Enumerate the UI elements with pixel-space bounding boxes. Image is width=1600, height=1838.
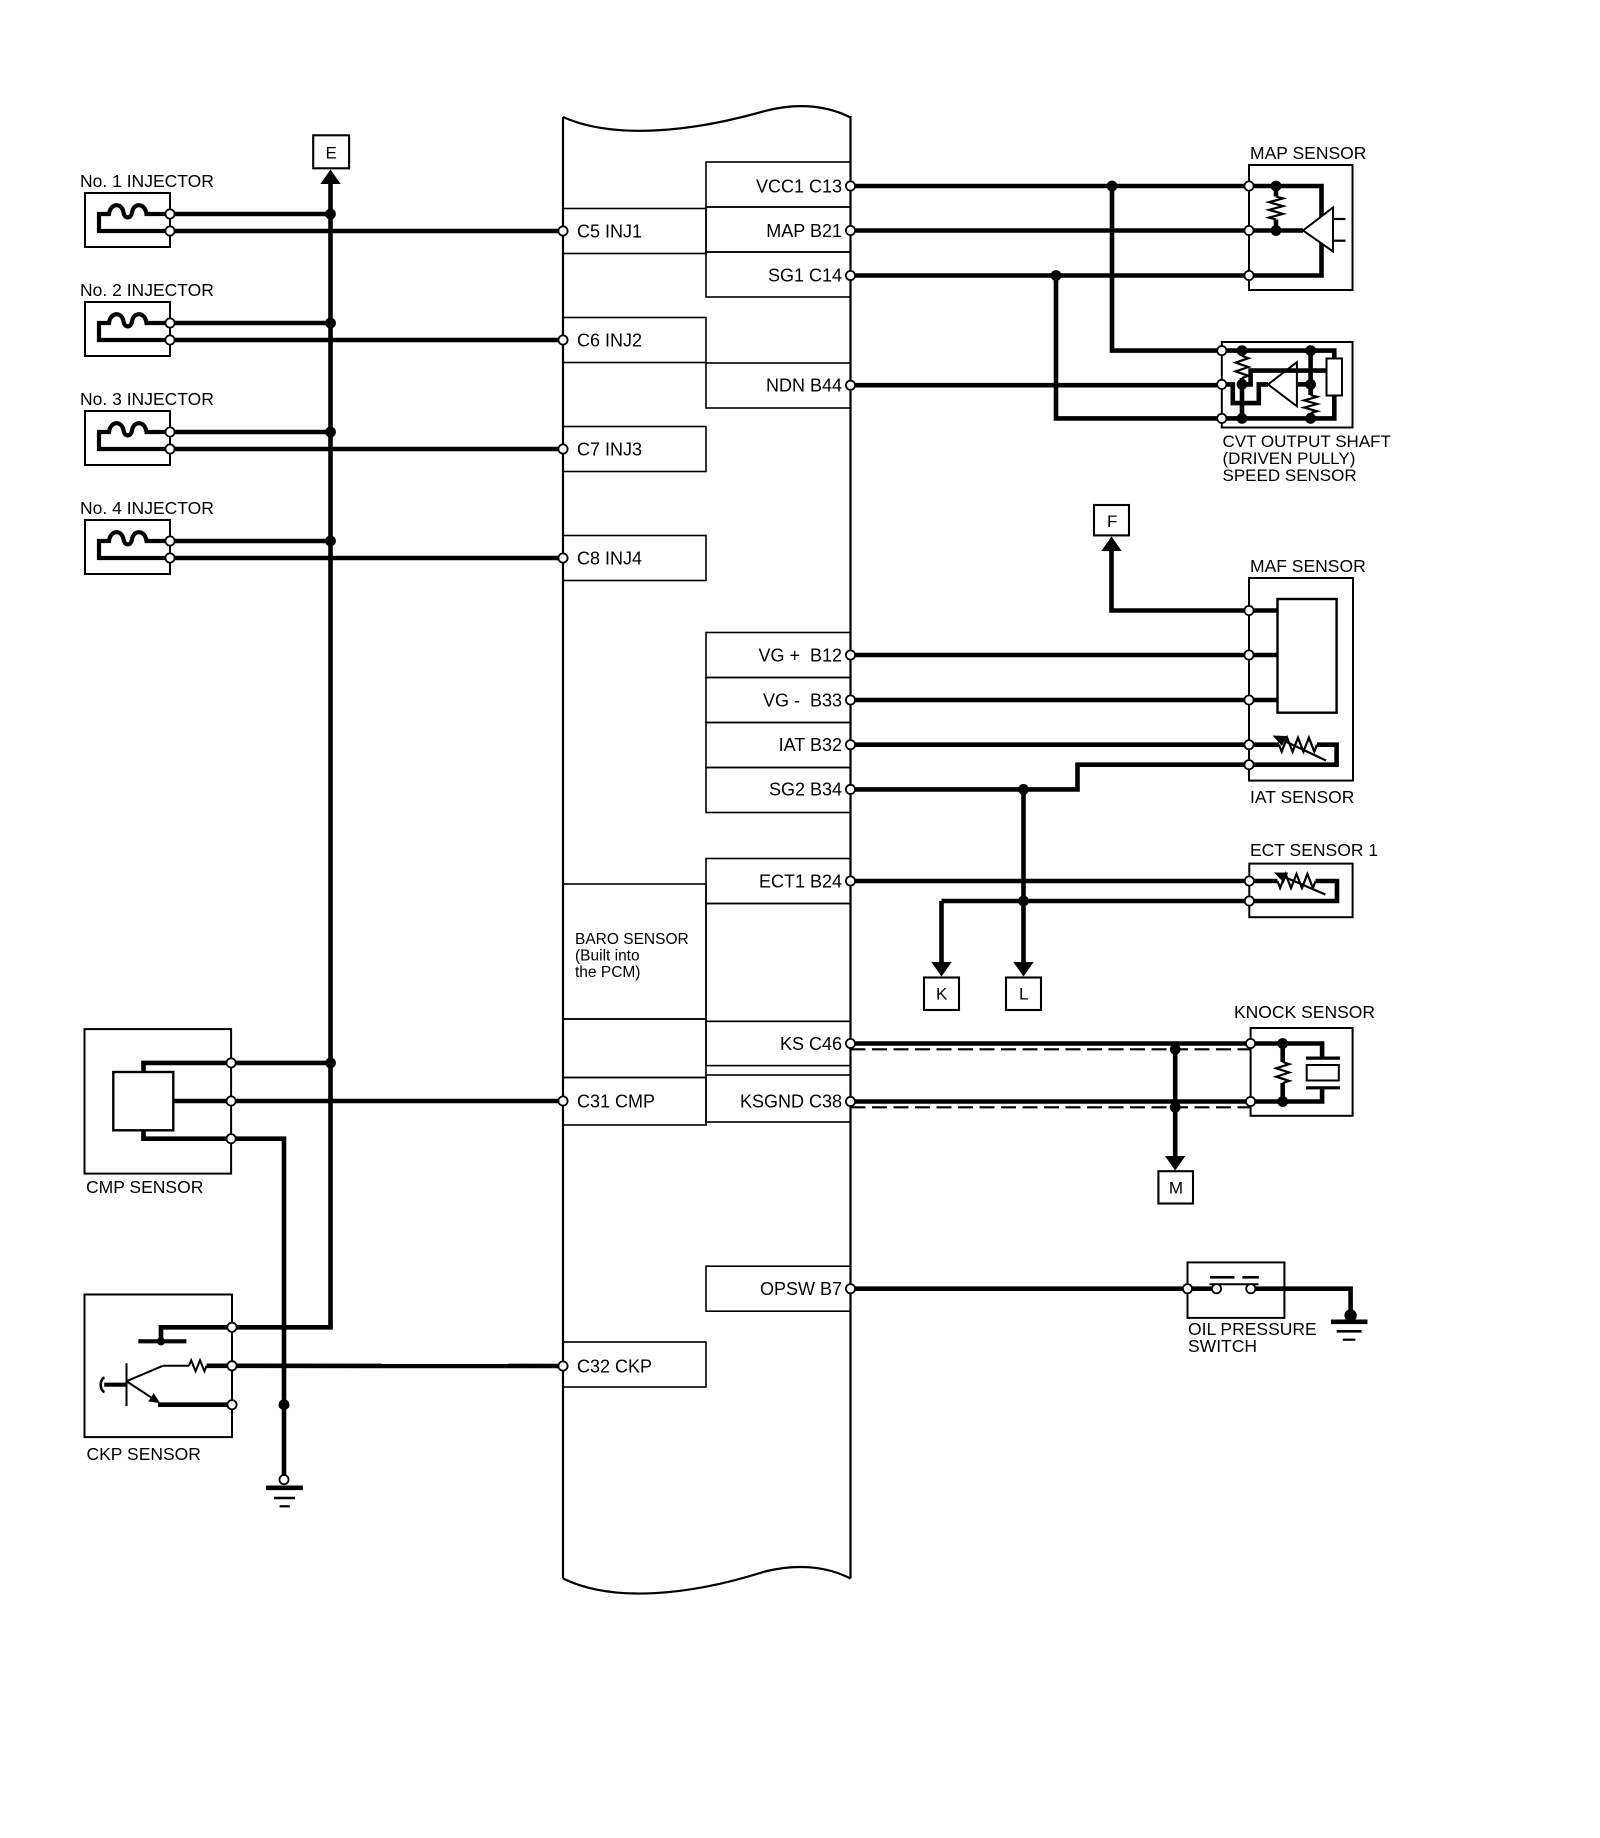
label CMP SENSOR [86,1177,203,1197]
CVT junction dots [1237,345,1316,424]
arrow to E [320,170,340,185]
PCM pin box NDN B44 [706,363,851,408]
svg-text:F: F [1107,512,1117,531]
injector No. 1 INJECTOR (coil) [85,193,170,247]
MAP sensor box [1249,165,1353,290]
CMP internal pin2 wire [173,1099,231,1104]
injector label No. 4 INJECTOR [80,498,214,518]
PCM pin circle NDN B44 [846,381,855,390]
wire OPSW B7 to switch [851,1286,1188,1291]
injector label No. 3 INJECTOR [80,389,214,409]
wire MAP B21 to MAP [851,228,1250,233]
arrow to F [1101,537,1121,552]
wire VCC1 C13 to MAP [851,184,1250,189]
PCM left edge [562,117,564,1579]
label OIL PRESSURE SWITCH [1188,1319,1317,1356]
PCM pin box C5 INJ1 [563,209,706,254]
wire MAF pin1 to F [1112,549,1250,611]
wire SG1 C14 to MAP [851,273,1250,278]
switch contact bar [1210,1283,1259,1285]
injector No. 4 INJECTOR (coil) [85,520,170,574]
svg-text:ECT1 B24: ECT1 B24 [759,871,842,891]
PCM box BARO SENSOR (built into PCM) [563,884,706,1019]
connector box K [924,978,959,1011]
PCM pin box MAP B21 [706,207,851,252]
label MAF SENSOR [1250,556,1366,576]
svg-text:SWITCH: SWITCH [1188,1336,1257,1356]
wire NDN B44 to CVT [851,383,1222,388]
wire CMP pin1 to E bus [231,1061,330,1066]
PCM top edge (torn wave) [563,106,851,131]
wire K drop [939,901,944,964]
PCM pin circle C32 CKP [558,1361,567,1370]
pin label VCC1 C13 [756,176,842,196]
wire VG + B12 to MAF [851,653,1278,658]
svg-text:No. 1 INJECTOR: No. 1 INJECTOR [80,171,214,191]
junction dot E bus / injector 1 [325,209,336,220]
shield dashed line KSGND [851,1106,1251,1108]
svg-text:MAP SENSOR: MAP SENSOR [1250,143,1366,163]
CMP sensor box [85,1029,232,1174]
PCM pin box VCC1 C13 [706,162,851,207]
junction dot E bus / CMP [325,1058,336,1069]
injector 1 pin circles [165,209,174,235]
IAT internal resistor [1249,738,1337,765]
MAF inner element box [1278,599,1337,713]
oil pressure switch box [1188,1262,1285,1318]
svg-text:C6 INJ2: C6 INJ2 [577,330,642,350]
svg-text:MAF SENSOR: MAF SENSOR [1250,556,1366,576]
label M [1169,1179,1183,1198]
wire KSGND C38 to knock [851,1099,1251,1104]
KNOCK pin circles [1246,1039,1255,1106]
svg-text:M: M [1169,1179,1183,1198]
ground dot (oil switch) [1344,1309,1356,1321]
label F [1107,512,1117,531]
svg-text:the PCM): the PCM) [575,964,640,981]
switch pin circle [1183,1284,1192,1293]
CKP pin circles [227,1323,236,1410]
pin label SG2 B34 [769,780,842,800]
CVT internal top rail [1222,351,1335,359]
CKP internal resistor [163,1360,232,1371]
ECT pin circles [1245,876,1254,905]
MAP amplifier stubs [1333,219,1346,241]
wire injector 4 pin2 to PCM C8 INJ4 [170,556,563,561]
svg-text:C5 INJ1: C5 INJ1 [577,221,642,241]
pin label IAT B32 [779,735,842,755]
KNOCK internal bottom wire [1251,1088,1323,1102]
KNOCK piezo plates [1306,1058,1340,1088]
MAF internal stub pin1 [1249,608,1278,613]
svg-text:C8 INJ4: C8 INJ4 [577,548,642,568]
PCM pin circle OPSW B7 [846,1284,855,1293]
svg-text:(Built into: (Built into [575,948,640,965]
CKP pickup coil symbol [101,1363,127,1406]
MAP pin circles [1244,181,1253,280]
injector No. 2 INJECTOR (coil) [85,302,170,356]
PCM bottom edge (torn wave) [563,1567,851,1594]
KNOCK internal resistor [1276,1044,1289,1102]
KNOCK sensor box [1251,1028,1353,1116]
injector label No. 1 INJECTOR [80,171,214,191]
PCM pin circle ECT1 B24 [846,876,855,885]
wire ECT1 B24 to ECT [851,879,1250,884]
wire injector 1 pin1 to E bus [170,212,331,217]
wire IAT B32 to MAF [851,742,1250,747]
CVT pin circles [1217,346,1226,423]
svg-text:BARO SENSOR: BARO SENSOR [575,931,689,948]
junction dot VCC1 branch [1107,181,1118,192]
PCM pin circles KS/KSGND [846,1039,855,1106]
svg-text:L: L [1019,985,1028,1004]
pin label ECT1 B24 [759,871,842,891]
label IAT SENSOR [1250,787,1354,807]
pin label VG +&#160;&#160;B12 [758,645,842,665]
MAP amplifier triangle [1303,208,1333,252]
MAP internal VCC rail [1249,186,1322,276]
svg-text:KNOCK SENSOR: KNOCK SENSOR [1234,1002,1375,1022]
MAP internal signal wire [1249,228,1303,233]
CMP inner element [113,1072,173,1130]
switch actuator dashes [1210,1276,1259,1279]
wire injector 4 pin1 to E bus [170,539,331,544]
junction dot SG2 branch [1018,784,1029,795]
MAF pin circles [1244,606,1253,769]
CMP internal pin1 wire [144,1063,232,1072]
switch internal wire [1188,1286,1285,1291]
CVT sensor box [1222,342,1353,428]
ground pin circle [279,1475,288,1484]
CMP internal pin3 wire [144,1130,232,1138]
wire switch to ground [1284,1289,1350,1316]
arrow to L [1013,962,1033,977]
CVT internal jog to element [1242,371,1327,385]
wire CMP pin2 to PCM C31 [231,1099,563,1104]
pin label C7 INJ3 [577,439,642,459]
PCM pin circle C8 INJ4 [558,553,567,562]
MAP internal resistor [1269,186,1283,231]
wire CMP pin3 down to CKP ground [231,1139,284,1475]
PCM pin box VG +&#160;&#160;B12 [706,633,851,678]
CMP pin circles [227,1058,236,1143]
wire injector 1 pin2 to PCM C5 INJ1 [170,229,563,234]
PCM pin circle C5 INJ1 [558,226,567,235]
injector 3 pin circles [165,427,174,453]
PCM pin circle C6 INJ2 [558,335,567,344]
injector No. 3 INJECTOR (coil) [85,411,170,465]
pin label MAP B21 [766,221,842,241]
wire injector 2 pin2 to PCM C6 INJ2 [170,338,563,343]
svg-text:KSGND C38: KSGND C38 [740,1091,842,1111]
CVT sensing element [1327,359,1343,396]
CKP internal shield wire [161,1327,232,1341]
junction dots shield/M [1170,1044,1181,1113]
CKP internal pin3 wire [158,1402,232,1407]
svg-text:CKP SENSOR: CKP SENSOR [87,1444,201,1464]
wire VCC1 branch down to CVT [1112,186,1222,351]
svg-text:VG - B33: VG - B33 [763,690,842,710]
pin label C8 INJ4 [577,548,642,568]
svg-text:E: E [326,144,337,163]
CVT internal bottom rail [1222,396,1335,419]
pin label SG1 C14 [768,265,842,285]
CKP pickup diagonal lower [127,1381,161,1403]
PCM pin box C8 INJ4 [563,536,706,581]
wire VG - B33 to MAF [851,698,1278,703]
PCM pin box IAT B32 [706,723,851,768]
injector 2 pin circles [165,318,174,344]
svg-text:ECT SENSOR 1: ECT SENSOR 1 [1250,840,1378,860]
connector box E [313,135,349,168]
wire KS C46 to knock [851,1041,1251,1046]
label CVT OUTPUT SHAFT [1223,432,1391,485]
PCM pin circles VG+/VG-/IAT/SG2 [846,650,855,794]
svg-text:MAP B21: MAP B21 [766,221,842,241]
svg-text:VCC1 C13: VCC1 C13 [756,176,842,196]
wire M drop [1173,1049,1178,1157]
label L [1019,985,1028,1004]
junction dot E bus / injector 3 [325,427,336,438]
CKP pickup diagonal upper [127,1366,163,1381]
injector 4 pin circles [165,536,174,562]
CVT internal left resistor line [1236,351,1249,419]
PCM right edge [849,116,851,1579]
label ECT SENSOR 1 [1250,840,1378,860]
svg-text:No. 2 INJECTOR: No. 2 INJECTOR [80,280,214,300]
ground symbol (CKP) [266,1488,303,1507]
label BARO SENSOR [575,931,689,981]
svg-text:CMP SENSOR: CMP SENSOR [86,1177,203,1197]
PCM pin box C7 INJ3 [563,427,706,472]
pin label C5 INJ1 [577,221,642,241]
svg-text:IAT SENSOR: IAT SENSOR [1250,787,1354,807]
svg-text:VG + B12: VG + B12 [758,645,842,665]
wire CKP pin2 to PCM C32 [232,1364,563,1369]
pin label C31 CMP [577,1091,655,1111]
PCM pin box empty spacer [706,904,851,1022]
connector box M [1158,1171,1193,1203]
svg-text:KS C46: KS C46 [780,1034,842,1054]
CVT internal input staircase [1222,384,1268,403]
wire E bus to CKP pin1 [232,1325,333,1330]
svg-text:SG1 C14: SG1 C14 [768,265,842,285]
PCM pin circle C7 INJ3 [558,444,567,453]
pin label VG -&#160;&#160;B33 [763,690,842,710]
pin label C6 INJ2 [577,330,642,350]
PCM pin box C31 CMP [563,1078,706,1126]
svg-text:C32 CKP: C32 CKP [577,1356,652,1376]
PCM pin box KS C46 [706,1021,851,1065]
PCM pin box C32 CKP [563,1342,706,1387]
CKP sensor box [85,1295,233,1438]
PCM pin box ECT1 B24 [706,859,851,904]
KNOCK internal top wire [1251,1044,1323,1059]
wire E bus vertical [328,182,333,1327]
PCM pin box SG2 B34 [706,768,851,813]
label E [326,144,337,163]
PCM pin circle C31 CMP [558,1096,567,1105]
connector box F [1094,505,1129,535]
svg-text:NDN B44: NDN B44 [766,376,842,396]
ECT sensor box [1249,864,1352,918]
CVT internal right branch line [1304,351,1317,419]
junction dot SG1 branch [1051,270,1062,281]
KNOCK junction dots [1277,1038,1288,1107]
PCM pin box SG1 C14 [706,252,851,297]
svg-text:No. 3 INJECTOR: No. 3 INJECTOR [80,389,214,409]
CVT amplifier output stub [1297,382,1311,387]
arrow to M [1165,1156,1185,1171]
connector box L [1006,978,1041,1011]
wire SG2 B34 to MAF [851,765,1250,790]
label MAP SENSOR [1250,143,1366,163]
pin label C32 CKP [577,1356,652,1376]
wire injector 3 pin2 to PCM C7 INJ3 [170,447,563,452]
junction dot CKP pin3 / ground drop [279,1399,290,1410]
arrow to K [931,962,951,977]
wire injector 3 pin1 to E bus [170,430,331,435]
svg-text:C31 CMP: C31 CMP [577,1091,655,1111]
pin label KS C46 [780,1034,842,1054]
PCM pin box VG -&#160;&#160;B33 [706,678,851,723]
KNOCK piezo crystal [1307,1065,1339,1081]
svg-text:No. 4 INJECTOR: No. 4 INJECTOR [80,498,214,518]
label CKP SENSOR [87,1444,201,1464]
shield dashed line KS [851,1048,1251,1050]
ground symbol (oil switch) [1331,1322,1368,1340]
ECT internal resistor [1249,874,1337,901]
MAF sensor box [1249,578,1353,781]
pin label OPSW B7 [760,1279,842,1299]
pin label KSGND C38 [740,1091,842,1111]
PCM pin box empty left column [563,1019,706,1078]
junction dots MAP resistor [1271,181,1282,236]
CKP shield plate [138,1337,186,1345]
ECT ground wire to K and L [942,899,1250,904]
PCM pin box OPSW B7 [706,1266,851,1311]
wire SG1 branch down to CVT [1056,276,1222,419]
svg-text:SG2 B34: SG2 B34 [769,780,842,800]
svg-text:SPEED SENSOR: SPEED SENSOR [1223,466,1357,485]
PCM pin box KSGND C38 [706,1075,851,1122]
PCM pin circles VCC1/MAP/SG1 [846,181,855,280]
wire injector 2 pin1 to E bus [170,321,331,326]
svg-text:OPSW B7: OPSW B7 [760,1279,842,1299]
junction dot ECT/L [1018,896,1029,907]
pin label NDN B44 [766,376,842,396]
junction dot E bus / injector 4 [325,536,336,547]
svg-text:C7 INJ3: C7 INJ3 [577,439,642,459]
IAT resistor arrow [1273,736,1326,761]
svg-text:K: K [936,985,948,1004]
wire L drop [1021,789,1026,963]
ECT resistor arrow [1274,873,1325,895]
injector label No. 2 INJECTOR [80,280,214,300]
PCM pin box C6 INJ2 [563,318,706,363]
CVT amplifier triangle [1268,362,1297,406]
label K [936,985,948,1004]
svg-text:IAT B32: IAT B32 [779,735,842,755]
junction dot E bus / injector 2 [325,318,336,329]
label KNOCK SENSOR [1234,1002,1375,1022]
switch contact circles [1212,1284,1256,1293]
